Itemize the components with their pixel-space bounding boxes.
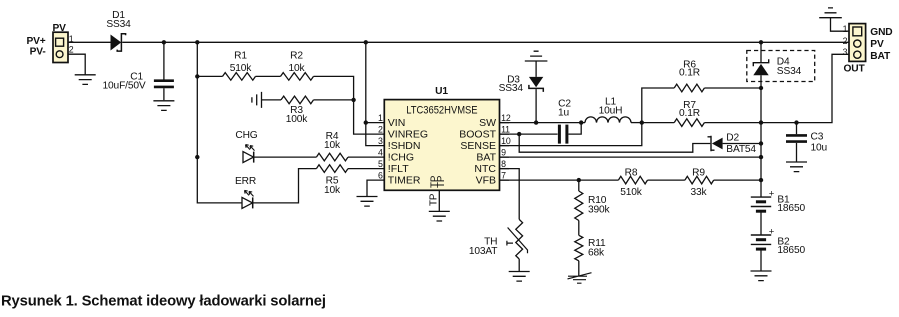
svg-text:3: 3 [843,47,848,57]
svg-text:PV+: PV+ [27,36,46,47]
diode D4 (Schottky SS34) [753,57,801,77]
wire left rail from top rail down to ERR LED [197,42,242,203]
wire R8 to R9 [648,179,685,181]
pin number 2 of PV [69,45,74,55]
wire C1 bottom plate to ground [163,88,165,100]
pin 12 name SW [479,117,496,129]
wire top rail to D4 cathode [760,42,762,62]
pin 4 name !CHG [388,152,414,164]
wire D2 anode to BAT column [723,143,761,145]
wire C3 bottom to ground [796,143,798,162]
label PV+ [27,36,46,47]
svg-text:1u: 1u [558,107,569,118]
svg-text:12: 12 [501,113,511,123]
wire left rail to R1 [197,75,222,77]
wire B2 to ground [760,249,762,271]
ground at thermistor [509,272,530,282]
svg-text:68k: 68k [588,247,605,258]
svg-text:BAT54: BAT54 [726,144,756,155]
junction VIN branch [364,120,368,124]
wire R9 to battery top [714,179,761,181]
wire junction up to R6 [642,88,674,123]
pin 5 number [378,159,383,169]
ground at B2 [751,271,772,281]
svg-text:SENSE: SENSE [460,140,496,152]
svg-text:BOOST: BOOST [459,129,496,141]
ground at R11 (with slash) [568,273,592,284]
svg-text:U1: U1 [435,86,448,97]
op-amp U1 LTC3652HVMSE body [384,86,499,190]
junction BAT column / R7 rail [759,120,763,124]
svg-text:TP: TP [428,193,439,206]
ground above D3 (inverted) [525,51,548,61]
svg-text:+: + [769,188,775,199]
junction top rail / C1 [162,40,166,44]
junction battery top / VFB rail [759,178,763,182]
diode D3 (Schottky SS34) [499,75,544,94]
svg-text:7: 7 [501,171,506,181]
svg-text:10uH: 10uH [599,106,623,117]
thermistor TH 103AT [469,219,528,259]
svg-text:11: 11 [501,125,510,135]
pin number 1 of OUT [843,24,848,34]
ground at PV- [75,75,96,85]
battery B1 18650 [751,188,806,214]
resistor R4 [316,131,348,161]
wire BAT node to C3 and OUT pin 3 [761,54,849,122]
wire R5 to !FLT pin 5 [348,168,384,170]
wire SENSE pin 10 to inductor output [500,123,642,146]
wire R11 to ground [578,261,580,276]
ground at TP [429,211,450,221]
svg-text:6: 6 [378,171,383,181]
junction C3 top [794,120,798,124]
svg-text:2: 2 [69,45,74,55]
wire ground to D3 anode [535,61,537,77]
diode D1 (Schottky SS34) [106,10,131,51]
capacitor C3 10u [786,132,827,154]
ground at C3 [786,162,807,172]
svg-text:100k: 100k [286,114,309,125]
wire ground to OUT pin 1 [831,18,850,32]
wire VFB rail down to R10 [578,180,580,191]
pin 6 number [378,171,383,181]
resistor R2 [281,51,314,81]
wire D3 cathode to SW node [535,89,537,123]
resistor R11 68k [575,235,606,260]
svg-text:+: + [769,226,775,237]
pin 2 name VINREG [388,129,428,141]
pin number 2 of OUT [843,36,848,46]
ground above OUT (inverted) [819,8,842,18]
pin 9 name BAT [476,152,496,164]
wire R2 to VINREG pin 2 [314,76,385,134]
svg-text:SS34: SS34 [499,83,524,94]
wire L1 to R6/R7 junction [631,122,642,124]
resistor R6 0.1R [674,60,704,92]
svg-text:10uF/50V: 10uF/50V [103,81,146,92]
wire R6 to BAT column [704,87,761,89]
svg-text:R9: R9 [692,167,705,178]
svg-text:1: 1 [843,24,848,34]
pin 1 number [378,113,383,123]
svg-text:R1: R1 [234,51,247,62]
svg-text:18650: 18650 [777,203,805,214]
svg-text:VINREG: VINREG [388,129,428,141]
caption Rysunek 1 [1,294,326,310]
svg-text:OUT: OUT [843,64,865,75]
junction left rail / R1 [195,74,199,78]
wire top rail to VIN pin 1 and !SHDN pin 3 [366,42,385,145]
wire D1 cathode along top PV rail to OUT pin2 [122,41,849,43]
label BAT [870,51,891,62]
pin 8 name NTC [474,163,496,175]
pin 3 number [378,136,383,146]
svg-text:3: 3 [378,136,383,146]
svg-text:0.1R: 0.1R [679,68,700,79]
wire junction to R7 [642,122,674,124]
pin TP labels (rotated) [428,175,447,206]
svg-text:PV: PV [870,39,884,50]
svg-text:!SHDN: !SHDN [388,140,421,152]
svg-text:NTC: NTC [474,163,496,175]
svg-text:BAT: BAT [870,51,891,62]
svg-text:GND: GND [870,27,892,38]
wire NTC pin 8 down to thermistor [500,169,520,220]
wire TIMER pin 6 to ground [367,180,384,196]
pin number 3 of OUT [843,47,848,57]
resistor R5 [316,165,348,196]
label ERR [235,176,256,187]
junction top rail / D4 branch [759,40,763,44]
svg-text:LTC3652HVMSE: LTC3652HVMSE [406,104,477,116]
dashed box around D4 [747,51,815,82]
svg-text:103AT: 103AT [469,246,498,257]
wire C2 to SW node [568,123,581,135]
LED ERR [242,190,254,208]
svg-text:ERR: ERR [235,176,256,187]
svg-text:5: 5 [378,159,383,169]
resistor R7 0.1R [674,100,704,126]
battery B2 18650 [751,226,806,256]
svg-text:SS34: SS34 [106,19,131,30]
svg-text:VFB: VFB [476,175,496,187]
ground at C1 [153,101,174,111]
svg-text:R2: R2 [290,51,303,62]
resistor R8 510k [618,167,647,198]
wire ERR LED to R5 [253,169,317,203]
resistor R9 33k [685,167,714,198]
wire BAT pin 9 to battery column [500,156,762,158]
junction SW / C2 [579,120,583,124]
LED CHG [243,145,255,163]
svg-text:SS34: SS34 [777,66,802,77]
wire D4 anode to R6 node [760,75,762,88]
wire R1 to R2 [256,75,281,77]
svg-text:CHG: CHG [235,130,257,141]
pin 1 name VIN [388,117,406,129]
svg-text:4: 4 [378,148,383,158]
pin 7 name VFB [476,175,496,187]
svg-text:R8: R8 [625,167,638,178]
pin 8 number [501,159,506,169]
wire thermistor to ground [518,259,520,271]
svg-text:390k: 390k [588,204,611,215]
pin 10 number [501,136,511,146]
svg-text:10u: 10u [811,142,828,153]
svg-text:10k: 10k [324,140,341,151]
pin 3 name !SHDN [388,140,421,152]
junction top rail / VIN branch [364,40,368,44]
svg-text:1: 1 [378,113,383,123]
pin 4 number [378,148,383,158]
svg-text:0.1R: 0.1R [679,108,700,119]
inductor L1 10uH [585,96,631,122]
ground at TIMER [357,197,378,207]
wire B1 to B2 [760,211,762,235]
diode D2 (Schottky BAT54) [708,133,757,156]
label GND [870,27,892,38]
svg-text:Rysunek 1. Schemat ideowy łado: Rysunek 1. Schemat ideowy ładowarki sola… [1,294,326,310]
svg-text:10: 10 [501,136,511,146]
wire R4 to !CHG pin 4 [348,156,384,158]
wire R7 to BAT column [704,122,761,124]
junction VFB / R10 divider [577,178,581,182]
junction top rail / left rail [195,40,199,44]
pin 2 number [378,125,383,135]
resistor R10 390k [575,191,611,221]
pin 6 name TIMER [388,175,421,187]
pin 9 number [501,148,506,158]
resistor R1 [223,51,256,81]
wire R3 ground to R3 [262,99,282,101]
wire TP pad to ground [438,190,440,211]
wire C3 top [796,123,798,135]
junction SW / D3 [534,120,538,124]
junction R2/R3 node [351,98,355,102]
wire CHG LED to R4 [254,156,317,158]
svg-text:8: 8 [501,159,506,169]
junction BAT column / D2 [759,141,763,145]
svg-text:10k: 10k [289,63,306,74]
svg-text:SW: SW [479,117,496,129]
svg-text:TIMER: TIMER [388,175,421,187]
wire R10 to R11 [578,221,580,236]
junction L1 / R6 / R7 / SENSE [640,120,644,124]
svg-text:9: 9 [501,148,506,158]
pin 11 name BOOST [459,129,496,141]
wire BOOST branch to D2 cathode [519,134,710,152]
pin 10 name SENSE [460,140,496,152]
wire BOOST pin 11 to C2 [500,133,558,135]
svg-text:TP: TP [436,175,447,188]
svg-text:510k: 510k [230,63,253,74]
connector OUT (output header) [843,24,865,75]
wire SW pin 12 to L1 [500,122,586,124]
svg-text:PV: PV [53,23,67,34]
label PV- [30,47,46,58]
svg-text:!FLT: !FLT [388,163,409,175]
junction BAT column / BAT pin [759,155,763,159]
pin number 1 of PV [69,34,74,44]
svg-text:BAT: BAT [476,152,496,164]
junction BOOST / boost-diode branch [517,132,521,136]
svg-text:510k: 510k [620,187,643,198]
capacitor C1 [103,72,174,92]
junction left rail / CHG LED [195,155,199,159]
wire VIN pin 1 stub [366,122,385,124]
svg-text:C3: C3 [811,132,824,143]
svg-text:2: 2 [378,125,383,135]
wire rail to C1 top plate [163,42,165,79]
pin 7 number [501,171,506,181]
svg-text:D2: D2 [726,133,739,144]
svg-text:18650: 18650 [777,245,805,256]
right pin stubs of U1 [500,123,510,181]
junction BAT column / R6 [759,86,763,90]
svg-text:PV-: PV- [30,47,46,58]
pin 5 name !FLT [388,163,409,175]
svg-text:10k: 10k [324,185,341,196]
svg-text:!CHG: !CHG [388,152,414,164]
resistor R3 [281,96,314,125]
svg-text:VIN: VIN [388,117,406,129]
capacitor C2 1u [558,98,571,143]
connector PV (input header) [53,23,69,63]
wire PV pin2 to ground [68,54,85,75]
wire VFB pin 7 rail [500,179,619,181]
pin 12 number [501,113,511,123]
wire PV pin1 to D1 anode [68,41,111,43]
label PV [870,39,884,50]
pin 11 number [501,125,510,135]
ground at R3 (left-pointing) [252,92,262,108]
wire R3 to VINREG node [314,99,354,101]
wire BAT column from R6 node down to battery [760,88,762,197]
svg-text:33k: 33k [691,187,708,198]
label CHG [235,130,257,141]
svg-text:2: 2 [843,36,848,46]
